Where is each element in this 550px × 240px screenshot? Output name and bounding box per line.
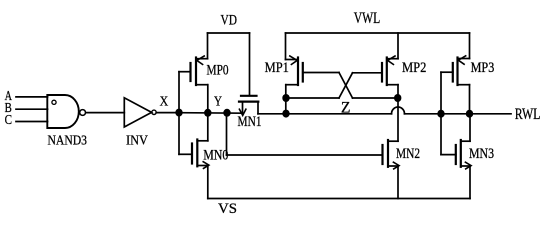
svg-text:VS: VS bbox=[218, 201, 237, 217]
svg-text:C: C bbox=[5, 113, 12, 128]
transistor MP1 bbox=[286, 33, 340, 114]
rail VD bbox=[208, 32, 250, 34]
wire input C bbox=[16, 121, 48, 123]
wire Y column down bbox=[226, 113, 228, 155]
wire hop over MN2 drain bbox=[392, 107, 405, 114]
node Y dot bbox=[223, 109, 230, 117]
svg-text:MP0: MP0 bbox=[207, 63, 229, 79]
svg-text:NAND3: NAND3 bbox=[48, 134, 88, 149]
gate INV output bubble bbox=[152, 110, 156, 114]
transistor MN3 bbox=[456, 114, 471, 199]
gate INV triangle bbox=[124, 98, 151, 127]
svg-text:MN2: MN2 bbox=[396, 146, 420, 162]
node dot drain MP0/MN0 bbox=[204, 109, 211, 117]
svg-text:MN0: MN0 bbox=[203, 147, 228, 163]
svg-text:MP2: MP2 bbox=[402, 60, 426, 76]
wire input B bbox=[16, 108, 48, 110]
transistor MP3 bbox=[453, 33, 470, 114]
wire latch line left bbox=[286, 97, 339, 99]
wire main row left bbox=[179, 112, 243, 115]
svg-text:MN1: MN1 bbox=[238, 114, 262, 130]
node dot MP1 drain bbox=[282, 94, 289, 102]
svg-text:VWL: VWL bbox=[354, 10, 381, 27]
node dot RWL junction bbox=[466, 110, 473, 118]
svg-text:INV: INV bbox=[126, 133, 148, 148]
transistor MN0 bbox=[179, 140, 209, 199]
gate NAND3 inner bubble bbox=[52, 100, 56, 104]
wire input A bbox=[16, 96, 48, 98]
svg-text:VD: VD bbox=[221, 13, 238, 29]
svg-text:Z: Z bbox=[341, 99, 351, 116]
wire MP3/MN3 gate column bbox=[440, 72, 442, 154]
wire X column bbox=[178, 72, 180, 155]
wire NAND3 to INV bbox=[86, 112, 125, 114]
wire MN2 drain column bbox=[397, 98, 399, 141]
transistor MN2 bbox=[383, 140, 400, 199]
node X dot bbox=[175, 109, 182, 117]
gate NAND3 body bbox=[47, 95, 79, 128]
transistor MP2 bbox=[353, 33, 399, 98]
svg-text:MP3: MP3 bbox=[471, 60, 495, 76]
svg-text:MP1: MP1 bbox=[265, 60, 289, 76]
node dot MP1 on main row bbox=[282, 110, 289, 118]
wire main row right bbox=[405, 113, 512, 115]
gate NAND3 output bubble bbox=[80, 110, 86, 116]
wire MP0 drain column bbox=[207, 85, 209, 141]
svg-text:X: X bbox=[160, 94, 169, 109]
wire cross diagonal MP2gate-MP1drain bbox=[339, 73, 353, 98]
transistor MN1 bbox=[239, 33, 258, 115]
wire latch line right bbox=[353, 97, 398, 99]
svg-text:Y: Y bbox=[214, 93, 222, 108]
wire INV to node X bbox=[156, 112, 179, 114]
wire cross diagonal MP1gate-MP2drain bbox=[339, 73, 353, 99]
wire MP3 gate lead bbox=[441, 71, 453, 73]
wire Y to MN2 gate bbox=[227, 154, 383, 156]
rail VS bbox=[208, 198, 470, 200]
rail VWL bbox=[286, 32, 470, 34]
wire main row middle bbox=[258, 113, 392, 115]
svg-text:MN3: MN3 bbox=[469, 146, 494, 162]
node dot MP2 drain bbox=[394, 94, 401, 102]
transistor MP0 bbox=[179, 33, 208, 85]
wire MN3 gate lead bbox=[441, 154, 456, 156]
svg-text:RWL: RWL bbox=[515, 106, 541, 123]
node dot MP3 gate column bbox=[437, 110, 444, 118]
